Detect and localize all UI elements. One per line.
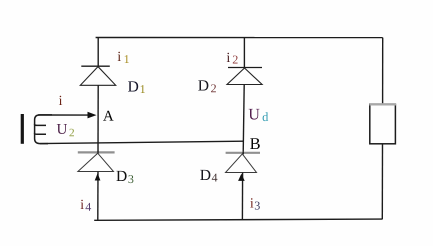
wire left branch upper [97,38,99,67]
wire right branch mid to node B [243,85,244,154]
arrow current i into node A [38,112,97,119]
wire right branch lower [241,173,243,220]
diode D3 [78,151,115,172]
node B label [250,138,260,149]
wire top rail [96,37,383,39]
node A label [103,111,114,121]
label i2 [227,53,238,64]
label i1 [118,52,129,63]
arrowhead current i3 [238,174,245,181]
label U2 [57,124,74,136]
label i4 [81,200,92,211]
wire bottom rail [94,219,382,220]
diode D4 [226,152,261,173]
wire right branch upper [243,38,245,68]
diode D1 [80,66,115,85]
label D2 [198,80,216,92]
wire left branch lower [97,172,99,220]
wire far right vertical lower [381,144,383,219]
label Ud [249,109,269,121]
wire far right vertical upper [382,38,384,105]
diode D2 [227,68,262,85]
transformer core bar [21,114,24,144]
label D3 [116,171,133,183]
load resistor [369,104,396,144]
wire left branch mid (through node A crossing) [97,85,99,153]
label D1 [128,81,145,93]
label i3 [250,198,260,209]
label i [59,96,62,105]
label D4 [200,170,217,182]
transformer winding U2 [35,115,52,144]
wire transformer bottom to node B [40,141,243,143]
arrowhead current i4 [95,173,101,180]
